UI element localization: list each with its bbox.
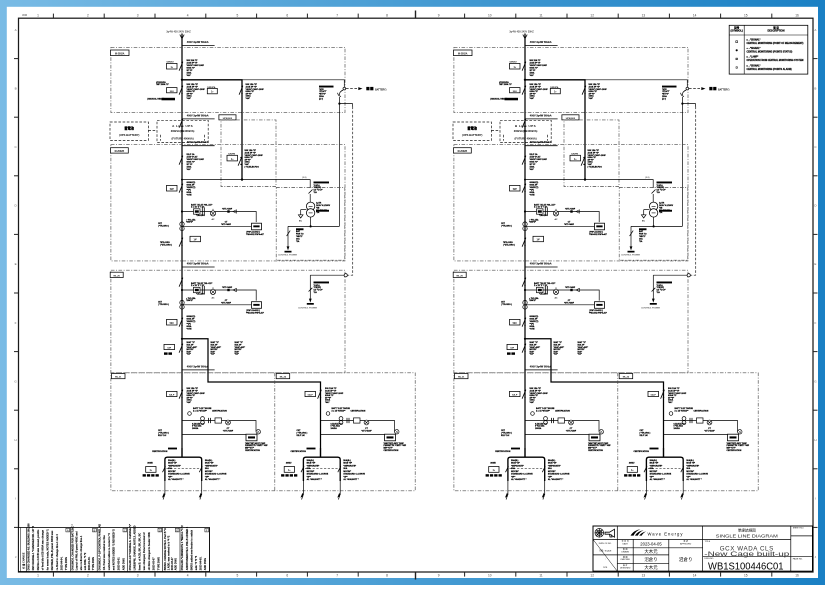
sub-feed branch wire 1 [181, 338, 321, 458]
svg-text:TYPE DWG: TYPE DWG [65, 557, 68, 570]
speaker logo mark [605, 529, 615, 537]
heavy UPS feeder line 2 [524, 79, 586, 181]
svg-text:2023-01-30.: 2023-01-30. [88, 556, 91, 570]
to battery arrow 2 [689, 87, 730, 92]
svg-text:30M: 30M [22, 13, 27, 17]
control power feed 1 [278, 217, 339, 257]
svg-text:*477-*440F: *477-*440F [565, 286, 576, 289]
UPS distribution box 2 [562, 115, 619, 187]
svg-text:52C: 52C [513, 323, 518, 325]
svg-text:12: 12 [590, 574, 594, 578]
battery DC fuse tap 1 [338, 90, 353, 226]
UPS distribution box 1 [219, 115, 276, 187]
svg-text:52LP: 52LP [512, 395, 518, 397]
UPS unit 1 [157, 120, 208, 142]
svg-text:B Line UPS: B Line UPS [515, 124, 536, 128]
wave energy logo [631, 529, 647, 535]
incoming source 1 [166, 30, 214, 47]
svg-text:DWG.NO.AD *CHANGE.S. CHANGE-*1: DWG.NO.AD *CHANGE.S. CHANGE-*1* [129, 524, 132, 570]
svg-text:52P: 52P [513, 189, 518, 191]
svg-text:沼倉り: 沼倉り [679, 556, 693, 563]
feeder contact P4 1 [179, 278, 183, 287]
svg-text:30MU: 30MU [286, 462, 292, 464]
svg-text:M-2002A: M-2002A [115, 52, 125, 55]
UPS inline contact 2 [522, 119, 526, 128]
svg-text:11: 11 [539, 574, 543, 578]
svg-text:also re-fixed to change line-1: also re-fixed to change line-1 [80, 535, 83, 570]
svg-text:BKRS added new feeder to switc: BKRS added new feeder to switch [190, 529, 193, 570]
svg-text:*1Ad-20C: *1Ad-20C [539, 214, 548, 217]
svg-text:Item B. of ACB, BK, BK, BK, BC: Item B. of ACB, BK, BK, BK, BC [138, 533, 141, 571]
bus label 400V 2a [525, 114, 558, 119]
revision history block [19, 523, 210, 572]
svg-text:for newer loads, NOTES ADDED *: for newer loads, NOTES ADDED *1 [46, 529, 49, 571]
battery charger metering cluster P2-2 [501, 203, 607, 235]
svg-text:H: H [814, 438, 816, 442]
bus label 400V 2d [525, 365, 558, 370]
svg-text:(3-3): (3-3) [645, 177, 650, 179]
svg-text:ckt bkrs changed to feeder 400: ckt bkrs changed to feeder 400k [148, 532, 151, 571]
sub-feed branch wire 2 [524, 338, 664, 458]
feeder description columns 2 [530, 341, 589, 356]
svg-text:CONTROL POWER: CONTROL POWER [298, 308, 318, 310]
battery feed wire 1 [242, 80, 346, 90]
svg-text:7: 7 [336, 574, 338, 578]
feeder contact P4 2 [522, 278, 526, 287]
svg-text:6: 6 [286, 13, 288, 17]
svg-text:52H2IU: 52H2IU [167, 61, 175, 63]
feeder breaker 1 [179, 153, 205, 171]
svg-text:DWG NO.: DWG NO. [705, 558, 715, 560]
svg-text:C: C [124, 528, 126, 532]
svg-text:EC: EC [299, 220, 302, 222]
svg-text:*1Ad-20C: *1Ad-20C [196, 214, 205, 217]
revision column F [209, 528, 211, 572]
svg-text:400V 3φ4W 50HzA: 400V 3φ4W 50HzA [187, 365, 209, 368]
distribution bus bar 2R [663, 448, 665, 457]
svg-text:52F: 52F [167, 348, 171, 350]
battery DC sense dashed 2 [691, 107, 696, 276]
svg-text:4: 4 [187, 13, 189, 17]
svg-text:8: 8 [386, 574, 388, 578]
svg-text:ML-20: ML-20 [457, 275, 464, 277]
UPS battery unit 2 [453, 122, 491, 140]
svg-text:9: 9 [438, 574, 440, 578]
svg-text:単線結線図: 単線結線図 [738, 528, 756, 533]
svg-text:( MANUAL RESET: ( MANUAL RESET [147, 97, 165, 100]
sub-panel feeder breaker 1R [305, 387, 344, 404]
svg-text:大木元: 大木元 [644, 548, 658, 555]
panel P3 enclosure 1 [111, 373, 415, 491]
svg-text:3φ4W 400-240V 50HZ: 3φ4W 400-240V 50HZ [509, 30, 534, 33]
svg-text:*1Ad-20C: *1Ad-20C [539, 292, 548, 295]
control power tap 2 [641, 274, 690, 310]
svg-text:DWG/NOS. CHANGED FOR BATT.B/C: DWG/NOS. CHANGED FOR BATT.B/C * [72, 524, 75, 570]
control power tap 1 [298, 274, 347, 310]
svg-text:400V 3φ4W 50HzA: 400V 3φ4W 50HzA [530, 114, 552, 117]
svg-text:REV/no.4 ACB was issued, posit: REV/no.4 ACB was issued, positio [37, 529, 40, 570]
svg-text:BK/NO. CHANGE NOTE.5. Part B *: BK/NO. CHANGE NOTE.5. Part B *A [164, 528, 167, 570]
svg-text:A Line UPS: A Line UPS [172, 124, 193, 128]
UPS battery link 1 [148, 130, 157, 132]
svg-text:16: 16 [795, 13, 799, 17]
sub-panel feeder breaker 1L [167, 387, 206, 404]
title block [593, 526, 813, 573]
metering wiring 2L [495, 409, 611, 453]
breaker 52RB 1 [160, 236, 201, 246]
svg-text:M-2002A: M-2002A [458, 52, 468, 55]
svg-text:ML-21: ML-21 [458, 377, 465, 379]
svg-text:B: B [15, 86, 17, 90]
feeder description columns 1 [187, 341, 246, 356]
svg-text:13: 13 [642, 574, 646, 578]
metering CT 2R [669, 407, 693, 415]
load feeder drop 1L right [199, 459, 227, 500]
svg-text:ADD DWG: ADD DWG [122, 558, 125, 570]
revision column C [127, 528, 129, 572]
svg-text:52LP: 52LP [169, 395, 175, 397]
breaker 52RB 2 [503, 236, 544, 246]
feeder breaker 52C 2 [510, 315, 539, 330]
svg-text:*1Ad-20C: *1Ad-20C [196, 292, 205, 295]
metering CT 1R [326, 407, 350, 415]
svg-text:400V 3φ4W 50HzA: 400V 3φ4W 50HzA [530, 141, 552, 144]
svg-text:E: E [814, 262, 816, 266]
bus label 400V 2c [525, 262, 558, 267]
svg-text:Layout of PNL-B panel 400/2 an: Layout of PNL-B panel 400/2 and [76, 531, 79, 570]
svg-text:52C: 52C [170, 323, 175, 325]
sub-panel feeder breaker 2L [510, 387, 549, 404]
distribution bus bar 2L [524, 448, 526, 457]
breaker 52UPA on feeder 2 [550, 83, 607, 100]
control transformer box 1 [276, 188, 345, 261]
earthing EC 1 [298, 210, 306, 223]
panel P1 enclosure 1 [111, 47, 346, 112]
svg-text:TITLE: TITLE [705, 541, 711, 543]
svg-text:1 ADD. was rewired to b *4 *2: 1 ADD. was rewired to b *4 *2 [167, 535, 170, 570]
svg-text:DWN. OF NO.: DWN. OF NO. [599, 543, 612, 545]
control transformer box 2 [619, 188, 688, 261]
feeder breaker 1+ 2 [510, 59, 548, 77]
svg-text:ML-22: ML-22 [280, 377, 287, 379]
bus label 400V 2b [525, 141, 558, 146]
svg-text:DWG CHANGED AS. BUILDING 200,2: DWG CHANGED AS. BUILDING 200,208 [28, 523, 31, 570]
svg-text:A: A [814, 28, 816, 32]
svg-text:*477-*440F: *477-*440F [565, 208, 576, 211]
revision column B [96, 528, 98, 572]
svg-text:15: 15 [744, 574, 748, 578]
svg-text:ML-22: ML-22 [623, 377, 630, 379]
svg-text:52F: 52F [510, 348, 514, 350]
load feeder drop 1L left [143, 459, 191, 500]
metering wiring 2R [634, 409, 750, 453]
svg-text:52P: 52P [170, 189, 175, 191]
svg-text:*477-*440F: *477-*440F [222, 286, 233, 289]
UPS battery link 2 [491, 130, 500, 132]
battery DC sense dashed 1 [348, 107, 353, 276]
svg-text:作 番 CHANGE: 作 番 CHANGE [22, 552, 26, 569]
svg-text:RM CHANGE-1 *CHANGED NR. 1/6 *: RM CHANGE-1 *CHANGED NR. 1/6 *4 [32, 525, 35, 570]
svg-text:7: 7 [336, 13, 338, 17]
svg-text:WB1S100446C01: WB1S100446C01 [708, 562, 784, 573]
svg-text:4: 4 [187, 574, 189, 578]
svg-text:of feed bkr ACB 600A was chang: of feed bkr ACB 600A was change [42, 529, 45, 570]
svg-text:14: 14 [693, 13, 697, 17]
UPS unit 2 [500, 120, 551, 142]
battery charger metering cluster P4-2 [501, 282, 607, 314]
svg-text:CERTIFICATION: CERTIFICATION [152, 450, 168, 453]
panel P3 enclosure 2 [454, 373, 758, 491]
svg-text:16: 16 [795, 574, 799, 578]
svg-text:400V 3φ4W 50HzA: 400V 3φ4W 50HzA [187, 262, 209, 265]
svg-text:M-2002B: M-2002B [115, 151, 125, 153]
svg-text:大木元: 大木元 [644, 564, 658, 571]
control section labels 1 [314, 182, 330, 195]
svg-text:3φ4W 400-240V 50HZ: 3φ4W 400-240V 50HZ [166, 30, 191, 33]
svg-text:3: 3 [137, 13, 139, 17]
svg-text:B: B [94, 528, 96, 532]
panel P4 enclosure 1 [110, 270, 345, 373]
heavy UPS feeder line 1 [181, 79, 243, 181]
svg-text:10: 10 [488, 13, 492, 17]
svg-text:CONTROL POWER: CONTROL POWER [621, 255, 641, 257]
svg-text:REVISED, PNL-B panel 400/2 was: REVISED, PNL-B panel 400/2 was [51, 530, 54, 570]
svg-text:CERTIFICATION: CERTIFICATION [634, 450, 650, 453]
svg-text:1: 1 [37, 574, 39, 578]
svg-text:2023-04-04.: 2023-04-04. [61, 556, 64, 570]
revision column A [70, 528, 72, 572]
main 400V bus 1 [181, 47, 183, 458]
battery DC fuse tap 2 [681, 90, 696, 226]
UPS battery unit 1 [110, 122, 148, 140]
svg-text:9: 9 [438, 13, 440, 17]
svg-text:CERTIFICATION: CERTIFICATION [495, 450, 511, 453]
svg-text:(UPS BATTERY): (UPS BATTERY) [462, 133, 483, 137]
svg-text:A: A [15, 28, 17, 32]
battery trouble signal block 2 [662, 86, 677, 101]
svg-text:14: 14 [693, 574, 697, 578]
svg-text:12: 12 [590, 13, 594, 17]
breaker 52UPA on feeder 1 [207, 83, 264, 100]
svg-text:switched cables re-routed to *: switched cables re-routed to *4 [108, 533, 111, 571]
svg-text:2023-04-05: 2023-04-05 [640, 541, 662, 546]
sub-panel feeder breaker 2R [648, 387, 687, 404]
svg-text:(UPS BATTERY): (UPS BATTERY) [119, 133, 140, 137]
svg-text:2023-04-05.: 2023-04-05. [200, 556, 203, 570]
svg-text:ML-20: ML-20 [114, 275, 121, 277]
svg-text:沼倉り: 沼倉り [644, 556, 657, 563]
svg-text:DWG/NOS. P-1/P*CONTROL PANEL A: DWG/NOS. P-1/P*CONTROL PANEL AD [98, 524, 101, 570]
metering wiring 1R [291, 409, 407, 453]
distribution bus bar 1R [320, 448, 322, 457]
bus label 400V 1a [182, 114, 215, 119]
svg-text:30MU: 30MU [490, 462, 496, 464]
svg-text:400V 3φ4W 50HzA: 400V 3φ4W 50HzA [530, 365, 552, 368]
svg-text:SHEET NO.: SHEET NO. [793, 527, 805, 529]
to battery arrow 1 [346, 87, 387, 92]
svg-text:add. *4 *2 *6: add. *4 *2 *6 [195, 555, 198, 570]
svg-text:sub 400k. *4 *2: sub 400k. *4 *2 [84, 552, 87, 570]
svg-text:TYPE DWG: TYPE DWG [157, 557, 160, 570]
svg-text:52U: 52U [170, 91, 174, 93]
svg-text:10: 10 [488, 574, 492, 578]
control transformer TR 2 [649, 202, 673, 217]
svg-text:400V 3φ4W 50HzA: 400V 3φ4W 50HzA [187, 141, 209, 144]
svg-text:E: E [176, 528, 178, 532]
border reference grid numbers top [22, 13, 799, 17]
svg-text:52H2IU: 52H2IU [510, 61, 518, 63]
svg-text:30MU: 30MU [629, 462, 635, 464]
svg-text:PAGE NO.: PAGE NO. [793, 558, 803, 561]
svg-text:ADD DWG: ADD DWG [204, 558, 207, 570]
load feeder drop 2R right [680, 459, 708, 500]
breaker 52UPB on feeder 1 [227, 149, 263, 168]
distribution bus bar 1L [181, 448, 183, 457]
svg-text:400V 3φ4W 50HzA: 400V 3φ4W 50HzA [530, 262, 552, 265]
svg-text:B: B [814, 86, 816, 90]
bus label 400V 1c [182, 262, 215, 267]
main 400V bus 2 [524, 47, 526, 458]
svg-text:( MANUAL RESET: ( MANUAL RESET [490, 97, 508, 100]
svg-text:CERTIFICATION: CERTIFICATION [694, 409, 709, 412]
svg-text:LINE&PNL CHANGE, NOTE.5. ADDED: LINE&PNL CHANGE, NOTE.5. ADDED [134, 525, 137, 570]
svg-text:300kVA(PB400kVA): 300kVA(PB400kVA) [171, 129, 195, 133]
svg-text:5: 5 [237, 574, 239, 578]
svg-text:300kVA(PB400kVA): 300kVA(PB400kVA) [514, 129, 538, 133]
svg-text:CERTIFICATION: CERTIFICATION [555, 409, 570, 412]
svg-text:CERTIFICATION: CERTIFICATION [212, 409, 227, 412]
border reference grid numbers bottom [37, 574, 799, 578]
svg-text:and NOTES ADDED *1 REVISED *2: and NOTES ADDED *1 REVISED *2 [113, 529, 116, 571]
svg-text:CONTROL POWER: CONTROL POWER [278, 255, 298, 257]
svg-text:2023-02-01: 2023-02-01 [118, 557, 121, 570]
battery feed wire 2 [585, 80, 689, 90]
load feeder drop 1R right [337, 459, 365, 500]
svg-text:*477-*440F: *477-*440F [222, 208, 233, 211]
svg-text:A: A [67, 528, 69, 532]
svg-text:Wave Energy: Wave Energy [648, 532, 684, 537]
svg-text:re-fixed to change line-1 sub: re-fixed to change line-1 sub 4 [56, 534, 59, 571]
bus tie breaker 2 [507, 344, 526, 355]
revision column E [179, 528, 181, 572]
svg-text:52LP: 52LP [308, 395, 314, 397]
svg-text:E: E [15, 262, 17, 266]
metering wiring 1L [152, 409, 268, 453]
control power feed 2 [621, 217, 682, 257]
svg-text:ADD DWG: ADD DWG [175, 558, 178, 570]
svg-text:400V 3φ4W 50HzA: 400V 3φ4W 50HzA [187, 41, 209, 44]
feeder breaker HT-52UPA 1 [147, 81, 205, 100]
svg-text:400V 3φ4W 50HzA: 400V 3φ4W 50HzA [530, 41, 552, 44]
load feeder drop 1R left [281, 459, 329, 500]
svg-text:14*: 14* [537, 239, 541, 242]
svg-text:H: H [15, 438, 17, 442]
UPS inline contact 1 [179, 119, 183, 128]
svg-text:52U: 52U [513, 91, 517, 93]
svg-text:BATTERY): BATTERY) [718, 89, 730, 92]
svg-text:-New Cage built-up: -New Cage built-up [704, 551, 790, 558]
metering CT 1L [188, 407, 212, 415]
svg-text:2023-03-07: 2023-03-07 [153, 557, 156, 570]
svg-text:14*: 14* [194, 239, 198, 242]
bus label 400V 1b [182, 141, 215, 146]
svg-text:was changed, Panel rerouted of: was changed, Panel rerouted of [143, 532, 146, 570]
svg-text:11: 11 [539, 13, 543, 17]
svg-text:蓄電池: 蓄電池 [467, 126, 477, 131]
bus tie breaker 1 [164, 344, 183, 355]
svg-text:15: 15 [744, 13, 748, 17]
incoming source 2 [509, 30, 557, 47]
svg-text:D: D [159, 528, 161, 532]
feeder breaker 52P 1 [167, 181, 196, 196]
svg-text:(FUTURE 400kVA): (FUTURE 400kVA) [172, 136, 194, 140]
svg-text:F: F [814, 321, 816, 325]
metering CT 2L [531, 407, 555, 415]
battery charger metering cluster P4-1 [158, 282, 264, 314]
load feeder drop 2L right [542, 459, 570, 500]
svg-text:CONTROL POWER: CONTROL POWER [641, 308, 661, 310]
svg-text:1/6. Panel was rewired as line: 1/6. Panel was rewired as line [103, 535, 106, 571]
svg-text:2: 2 [87, 13, 89, 17]
feeder breaker 52C 1 [167, 315, 196, 330]
svg-text:6: 6 [286, 574, 288, 578]
svg-text:蓄電池: 蓄電池 [124, 126, 134, 131]
battery trouble signal block 1 [319, 86, 334, 101]
svg-text:8: 8 [386, 13, 388, 17]
svg-text:CERTIFICATION: CERTIFICATION [351, 409, 366, 412]
panel P2 enclosure 1 [111, 145, 346, 261]
svg-text:NTS: NTS [603, 567, 608, 569]
feeder breaker 52P 2 [510, 181, 539, 196]
revision column D [162, 528, 164, 572]
svg-text:3: 3 [137, 574, 139, 578]
bus label 400V 1d [182, 365, 215, 370]
svg-text:I: I [15, 497, 16, 501]
svg-text:(3-3): (3-3) [302, 177, 307, 179]
svg-text:SINGLE LINE DIAGRAM: SINGLE LINE DIAGRAM [716, 533, 778, 538]
svg-text:400V 3φ4W 50HzA: 400V 3φ4W 50HzA [187, 114, 209, 117]
panel P2 enclosure 2 [454, 145, 689, 261]
feeder breaker 2 [522, 153, 548, 171]
panel P4 enclosure 2 [453, 270, 688, 373]
earthing EC 2 [641, 210, 649, 223]
svg-text:BATTERY): BATTERY) [375, 89, 387, 92]
control feed wire 2 [524, 177, 656, 202]
legend table [729, 25, 808, 74]
panel P1 enclosure 2 [454, 47, 689, 112]
svg-text:1: 1 [37, 13, 39, 17]
svg-text:M-2002B: M-2002B [458, 151, 468, 153]
svg-text:DWG.NO.*ADD&NOTE 3 *NEW-G *4 *: DWG.NO.*ADD&NOTE 3 *NEW-G *4 *2 [181, 525, 184, 570]
svg-text:(FUTURE 400kVA): (FUTURE 400kVA) [515, 136, 537, 140]
svg-text:ML-21: ML-21 [115, 377, 122, 379]
svg-text:5: 5 [237, 13, 239, 17]
svg-text:2: 2 [87, 574, 89, 578]
control transformer TR 1 [306, 202, 330, 217]
svg-text:2023-03-27: 2023-03-27 [171, 557, 174, 570]
load feeder drop 2L left [486, 459, 534, 500]
svg-text:ADDITION&NOTE.5. PNL.B ADDED 3: ADDITION&NOTE.5. PNL.B ADDED 3 [186, 526, 189, 570]
svg-text:52LP: 52LP [651, 395, 657, 397]
control section labels 2 [657, 182, 673, 195]
svg-text:EC: EC [642, 220, 645, 222]
load feeder drop 2R left [624, 459, 672, 500]
svg-text:30MU: 30MU [147, 462, 153, 464]
svg-text:13: 13 [642, 13, 646, 17]
svg-text:F: F [15, 321, 17, 325]
feeder breaker 1+ 1 [167, 59, 205, 77]
control feed wire 1 [181, 177, 313, 202]
